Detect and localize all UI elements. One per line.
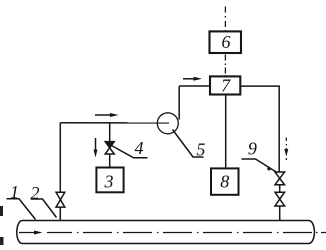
svg-text:6: 6 [222, 32, 231, 52]
svg-text:3: 3 [104, 172, 114, 192]
svg-text:7: 7 [221, 76, 231, 96]
svg-text:1: 1 [10, 182, 19, 202]
svg-text:9: 9 [248, 138, 257, 158]
svg-text:4: 4 [135, 138, 144, 158]
svg-text:8: 8 [220, 172, 229, 192]
svg-text:5: 5 [196, 140, 205, 160]
svg-text:2: 2 [31, 183, 40, 203]
